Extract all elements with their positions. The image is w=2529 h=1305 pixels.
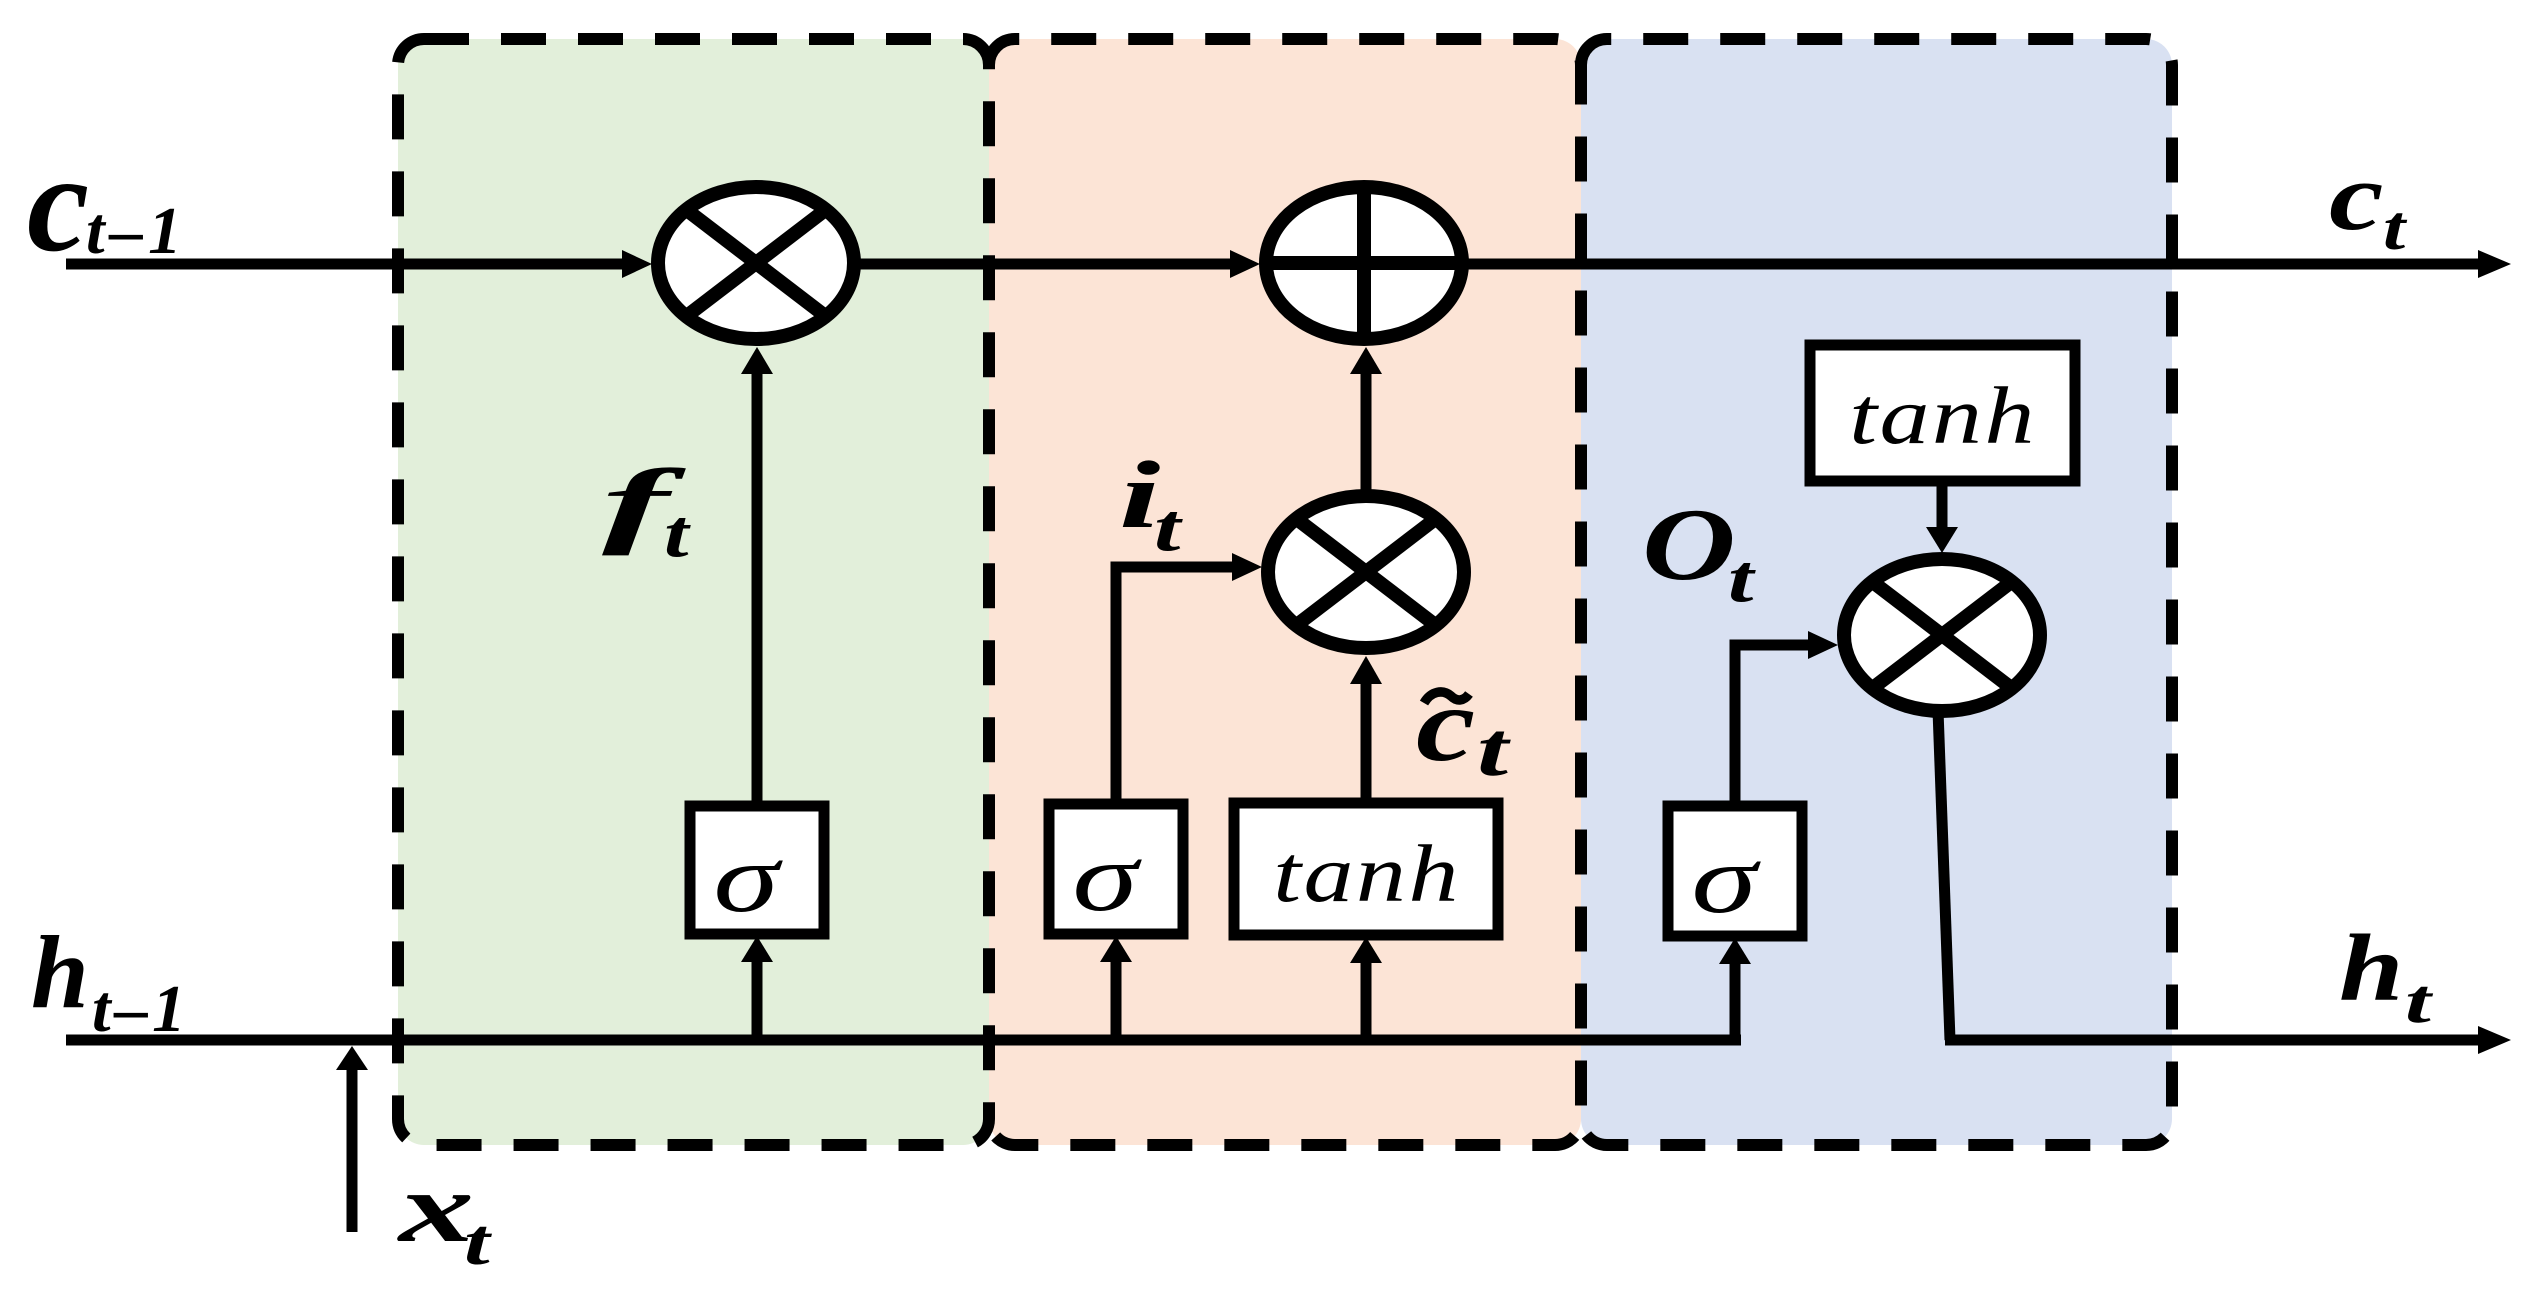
svg-text:σ: σ: [713, 824, 783, 933]
arrowhead into forget sigma: [741, 936, 773, 962]
forget gate region dashed border: [398, 39, 989, 1145]
svg-text:h: h: [2339, 916, 2403, 1021]
arrowhead into input tanh: [1350, 937, 1382, 963]
input gate region dashed border: [989, 39, 1581, 1145]
svg-text:t–1: t–1: [86, 194, 187, 268]
svg-text:t: t: [464, 1206, 493, 1279]
svg-text:tanh: tanh: [1849, 369, 2037, 460]
svg-text:h: h: [31, 915, 89, 1030]
arrowhead into forget multiply: [622, 250, 652, 278]
wire input multiply to add: [1361, 373, 1372, 490]
wire add to c(t) output: [1468, 259, 2479, 270]
arrowhead x(t) into h line: [336, 1046, 368, 1070]
wire x(t) input: [347, 1068, 358, 1232]
tanh box input gate: [1234, 803, 1498, 935]
label c(t): [2329, 144, 2407, 263]
svg-text:t: t: [2383, 192, 2407, 264]
svg-text:tanh: tanh: [1273, 827, 1461, 918]
svg-text:t: t: [1728, 541, 1756, 616]
label x(t): [397, 1152, 493, 1279]
arrowhead into input multiply bottom: [1350, 656, 1382, 684]
wire h line tap to input tanh: [1361, 960, 1372, 1040]
wire O(t) elbow from output sigma to output multiply: [1735, 645, 1811, 806]
forget gate region fill (green): [398, 39, 989, 1145]
multiply node output gate: [1844, 559, 2040, 711]
svg-text:t: t: [1477, 707, 1512, 792]
svg-text:O: O: [1642, 488, 1736, 601]
wire c~(t) from tanh to input multiply: [1361, 682, 1372, 806]
label O(t): [1642, 488, 1756, 616]
output gate region dashed border: [1581, 39, 2172, 1145]
multiply node input gate: [1268, 496, 1464, 648]
wire c(t-1) into forget multiply: [66, 259, 624, 270]
arrowhead into input multiply left: [1232, 553, 1262, 581]
wire h(t-1) bottom line: [66, 1035, 1741, 1046]
wire h line tap to forget sigma: [752, 960, 763, 1040]
wire output tanh to output multiply: [1937, 481, 1948, 528]
svg-text:t: t: [664, 497, 691, 572]
sigma box forget gate: [690, 806, 824, 934]
arrowhead into add node: [1230, 250, 1260, 278]
arrowhead into output multiply top: [1926, 527, 1958, 553]
input gate region fill (orange): [989, 39, 1581, 1145]
multiply node forget gate: [658, 187, 854, 339]
arrowhead into add bottom: [1350, 347, 1382, 374]
svg-text:c: c: [1416, 667, 1475, 784]
svg-text:x: x: [397, 1152, 474, 1263]
arrowhead into output sigma: [1719, 938, 1751, 964]
label i(t): [1119, 442, 1184, 565]
label h(t): [2339, 916, 2433, 1036]
output gate region fill (blue): [1581, 39, 2172, 1145]
label f(t): [602, 450, 691, 572]
sigma box input gate: [1049, 804, 1183, 934]
label c~(t): [1416, 667, 1512, 792]
arrowhead into output multiply left: [1808, 631, 1838, 659]
svg-text:c: c: [2329, 144, 2384, 250]
label c(t-1): [27, 126, 187, 281]
arrowhead into input sigma: [1100, 936, 1132, 962]
arrowhead c(t) output: [2478, 250, 2511, 278]
label h(t-1): [31, 915, 190, 1046]
wire output multiply down to h line: [1938, 710, 1950, 1040]
arrowhead h(t) output: [2478, 1026, 2511, 1054]
wire i(t) elbow from input sigma to input multiply: [1116, 567, 1234, 806]
wire h(t) output: [1945, 1035, 2479, 1046]
wire h line tap to input sigma: [1111, 960, 1122, 1040]
wire h line tap to output sigma: [1730, 962, 1741, 1040]
wire f(t) from sigma up to forget multiply: [752, 372, 763, 806]
svg-text:σ: σ: [1691, 825, 1761, 934]
svg-text:σ: σ: [1072, 823, 1142, 932]
add node input gate: [1266, 187, 1462, 339]
svg-text:t–1: t–1: [92, 972, 190, 1046]
arrowhead into forget multiply bottom: [741, 347, 773, 374]
sigma box output gate: [1668, 806, 1802, 936]
svg-text:c: c: [27, 126, 89, 281]
svg-text:t: t: [2405, 968, 2433, 1036]
svg-text:t: t: [1154, 489, 1184, 565]
wire forget multiply to add: [858, 259, 1232, 270]
tanh box output gate: [1810, 345, 2075, 481]
